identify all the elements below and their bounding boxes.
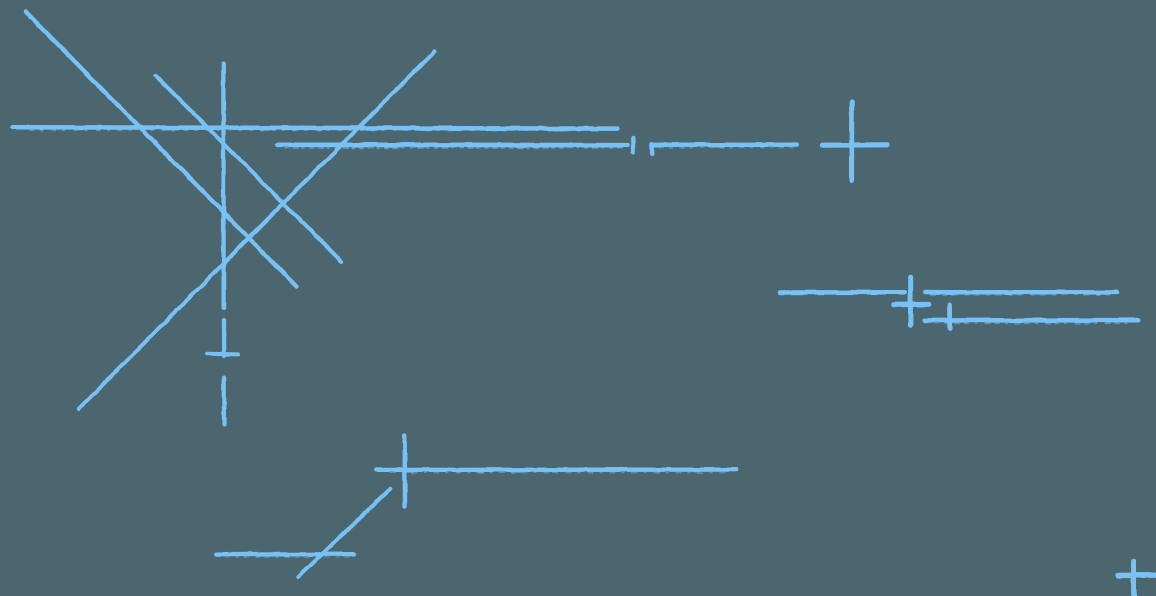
wire G2: lower right horizontal — [924, 320, 1137, 323]
wire I: lower-middle long horizontal — [376, 470, 736, 473]
wire C3: lower vertical dash — [222, 378, 227, 425]
tick T2: vertical tick at right end of E — [631, 138, 636, 152]
tick T5: vertical tick on lower-middle horizontal — [403, 436, 408, 507]
cross P1: plus sign upper right — [822, 102, 887, 181]
tick T1: horizontal tick on C2 — [208, 352, 239, 357]
wire C: main vertical segment — [221, 64, 226, 308]
wire B: short diagonal parallel to A — [155, 75, 341, 261]
wire H: long rising diagonal — [79, 51, 435, 408]
wire C2: middle vertical dash — [221, 320, 225, 356]
wire J: small rising diagonal bottom — [298, 488, 390, 577]
cross P3: plus sign bottom-right corner — [1118, 562, 1156, 596]
tick T4: small vertical tick on G2 — [947, 304, 952, 328]
wire G1a: right horizontal, left part — [780, 290, 905, 295]
wire K: small bottom horizontal — [216, 554, 354, 557]
wire E: second horizontal with end tick — [277, 145, 627, 148]
wire F: horizontal dash right of E — [652, 145, 797, 148]
wire D: long top horizontal — [13, 127, 618, 130]
wire G1b: right horizontal, right part — [925, 292, 1117, 295]
wire A: long diagonal from top-left — [25, 11, 296, 286]
tick T3: vertical tick at left end of F — [649, 144, 654, 153]
cross P2: plus sign on right horizontal — [894, 277, 929, 325]
